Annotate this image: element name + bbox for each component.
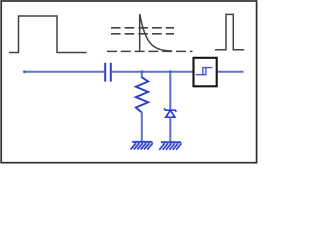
lower threshold dashed line	[111, 33, 174, 35]
capacitor C1	[104, 63, 106, 82]
node junction at resistor	[140, 70, 143, 73]
node junction at diode	[169, 70, 172, 73]
wire: diode to ground	[169, 117, 171, 141]
differentiated spike waveform (exponential decay)	[140, 14, 172, 51]
ground (under resistor)	[131, 142, 153, 150]
node A baseline (dashed zero line)	[107, 50, 193, 52]
input square-wave waveform	[9, 16, 87, 53]
resistor R1	[141, 72, 143, 78]
wire: capacitor to Schmitt trigger input	[112, 71, 194, 73]
wire: Schmitt trigger output	[218, 71, 244, 73]
output narrow pulse waveform	[215, 14, 244, 49]
diode D1 (clamp, cathode up)	[164, 108, 176, 117]
upper threshold dashed line	[111, 27, 174, 29]
wire: input to capacitor	[23, 71, 104, 73]
Schmitt trigger U1 box	[194, 58, 217, 87]
wire: node to diode	[169, 72, 171, 110]
Schmitt trigger hysteresis symbol	[196, 68, 213, 75]
ground (under diode)	[159, 142, 181, 150]
node input endpoint dot	[23, 70, 26, 73]
